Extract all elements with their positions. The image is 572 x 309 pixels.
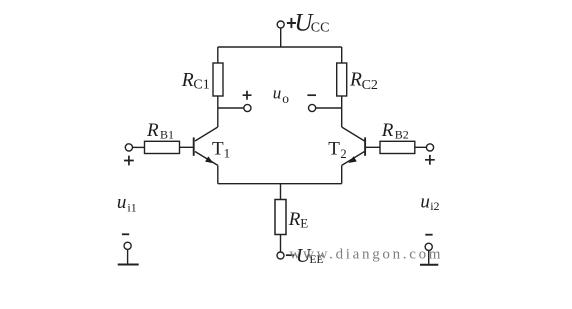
svg-text:R: R: [349, 70, 362, 91]
svg-text:www.diangon.com: www.diangon.com: [290, 246, 444, 262]
svg-text:R: R: [288, 209, 301, 230]
svg-text:R: R: [181, 70, 194, 91]
svg-text:R: R: [146, 120, 159, 141]
svg-text:u: u: [117, 192, 127, 213]
svg-text:T: T: [212, 138, 224, 159]
svg-text:B1: B1: [160, 128, 174, 142]
svg-text:B2: B2: [395, 128, 409, 142]
svg-text:u: u: [273, 84, 282, 103]
svg-text:1: 1: [224, 146, 231, 161]
svg-text:E: E: [300, 216, 308, 231]
svg-text:2: 2: [340, 147, 346, 161]
svg-text:i1: i1: [127, 200, 136, 214]
svg-text:CC: CC: [311, 21, 330, 36]
svg-text:R: R: [381, 120, 394, 141]
svg-text:o: o: [282, 91, 289, 106]
svg-text:C2: C2: [362, 78, 378, 93]
svg-text:C1: C1: [193, 78, 209, 93]
svg-text:T: T: [328, 139, 340, 160]
svg-text:i2: i2: [430, 199, 439, 213]
svg-text:u: u: [420, 191, 430, 212]
